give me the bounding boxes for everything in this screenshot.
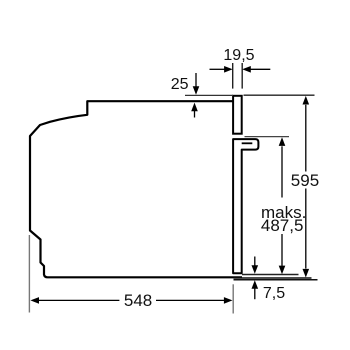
dimension line 548 left segment bbox=[39, 299, 120, 301]
door with handle bbox=[233, 139, 258, 273]
handle inner line bbox=[242, 142, 253, 144]
dimension line 548 right segment bbox=[156, 299, 224, 301]
arrow 595 top (up) bbox=[303, 96, 310, 105]
extension line niche bottom (B2) bbox=[234, 279, 318, 281]
oven body outline bbox=[30, 101, 242, 277]
label 7,5 bbox=[263, 286, 285, 302]
arrow 19,5 left bbox=[224, 66, 233, 73]
extension line top right (595 top) bbox=[244, 94, 315, 96]
label 548 bbox=[124, 292, 152, 309]
arrow 487,5 top (up) bbox=[279, 137, 286, 146]
arrow 25 upper (down) bbox=[195, 73, 197, 87]
label 595 bbox=[291, 172, 319, 189]
dimension line 19,5 left segment bbox=[210, 68, 225, 70]
label 19,5 bbox=[223, 48, 254, 64]
dimension line 19,5 right segment bbox=[250, 68, 270, 70]
arrow 548 left bbox=[30, 297, 39, 304]
extension line 548 left bbox=[28, 235, 30, 313]
extension line door bottom (A) bbox=[242, 274, 299, 276]
extension line 25 (panel top level) bbox=[185, 94, 233, 96]
control panel box bbox=[233, 96, 242, 134]
extension line maks 487,5 (handle level) bbox=[245, 136, 290, 138]
extension line 19,5 right bbox=[241, 63, 243, 89]
arrow 548 right bbox=[224, 297, 233, 304]
extension line 19,5 left bbox=[232, 63, 234, 89]
dimension line 487,5 bbox=[281, 146, 283, 197]
arrow 19,5 right bbox=[242, 66, 251, 73]
label 25 bbox=[171, 77, 189, 93]
dimension line 595 bbox=[305, 105, 307, 172]
extension line body bottom (B1) bbox=[234, 277, 312, 279]
arrow 487,5 bottom (down) bbox=[279, 266, 286, 275]
label 487,5 bbox=[261, 217, 304, 234]
arrow 7,5 lower (up) bbox=[254, 288, 256, 299]
extension line 548 right bbox=[232, 284, 234, 313]
arrow 25 lower (up) bbox=[194, 111, 196, 118]
arrow 7,5 upper (down) bbox=[254, 257, 256, 266]
label maks. bbox=[261, 204, 306, 221]
arrow 595 bottom (down) bbox=[303, 269, 310, 278]
